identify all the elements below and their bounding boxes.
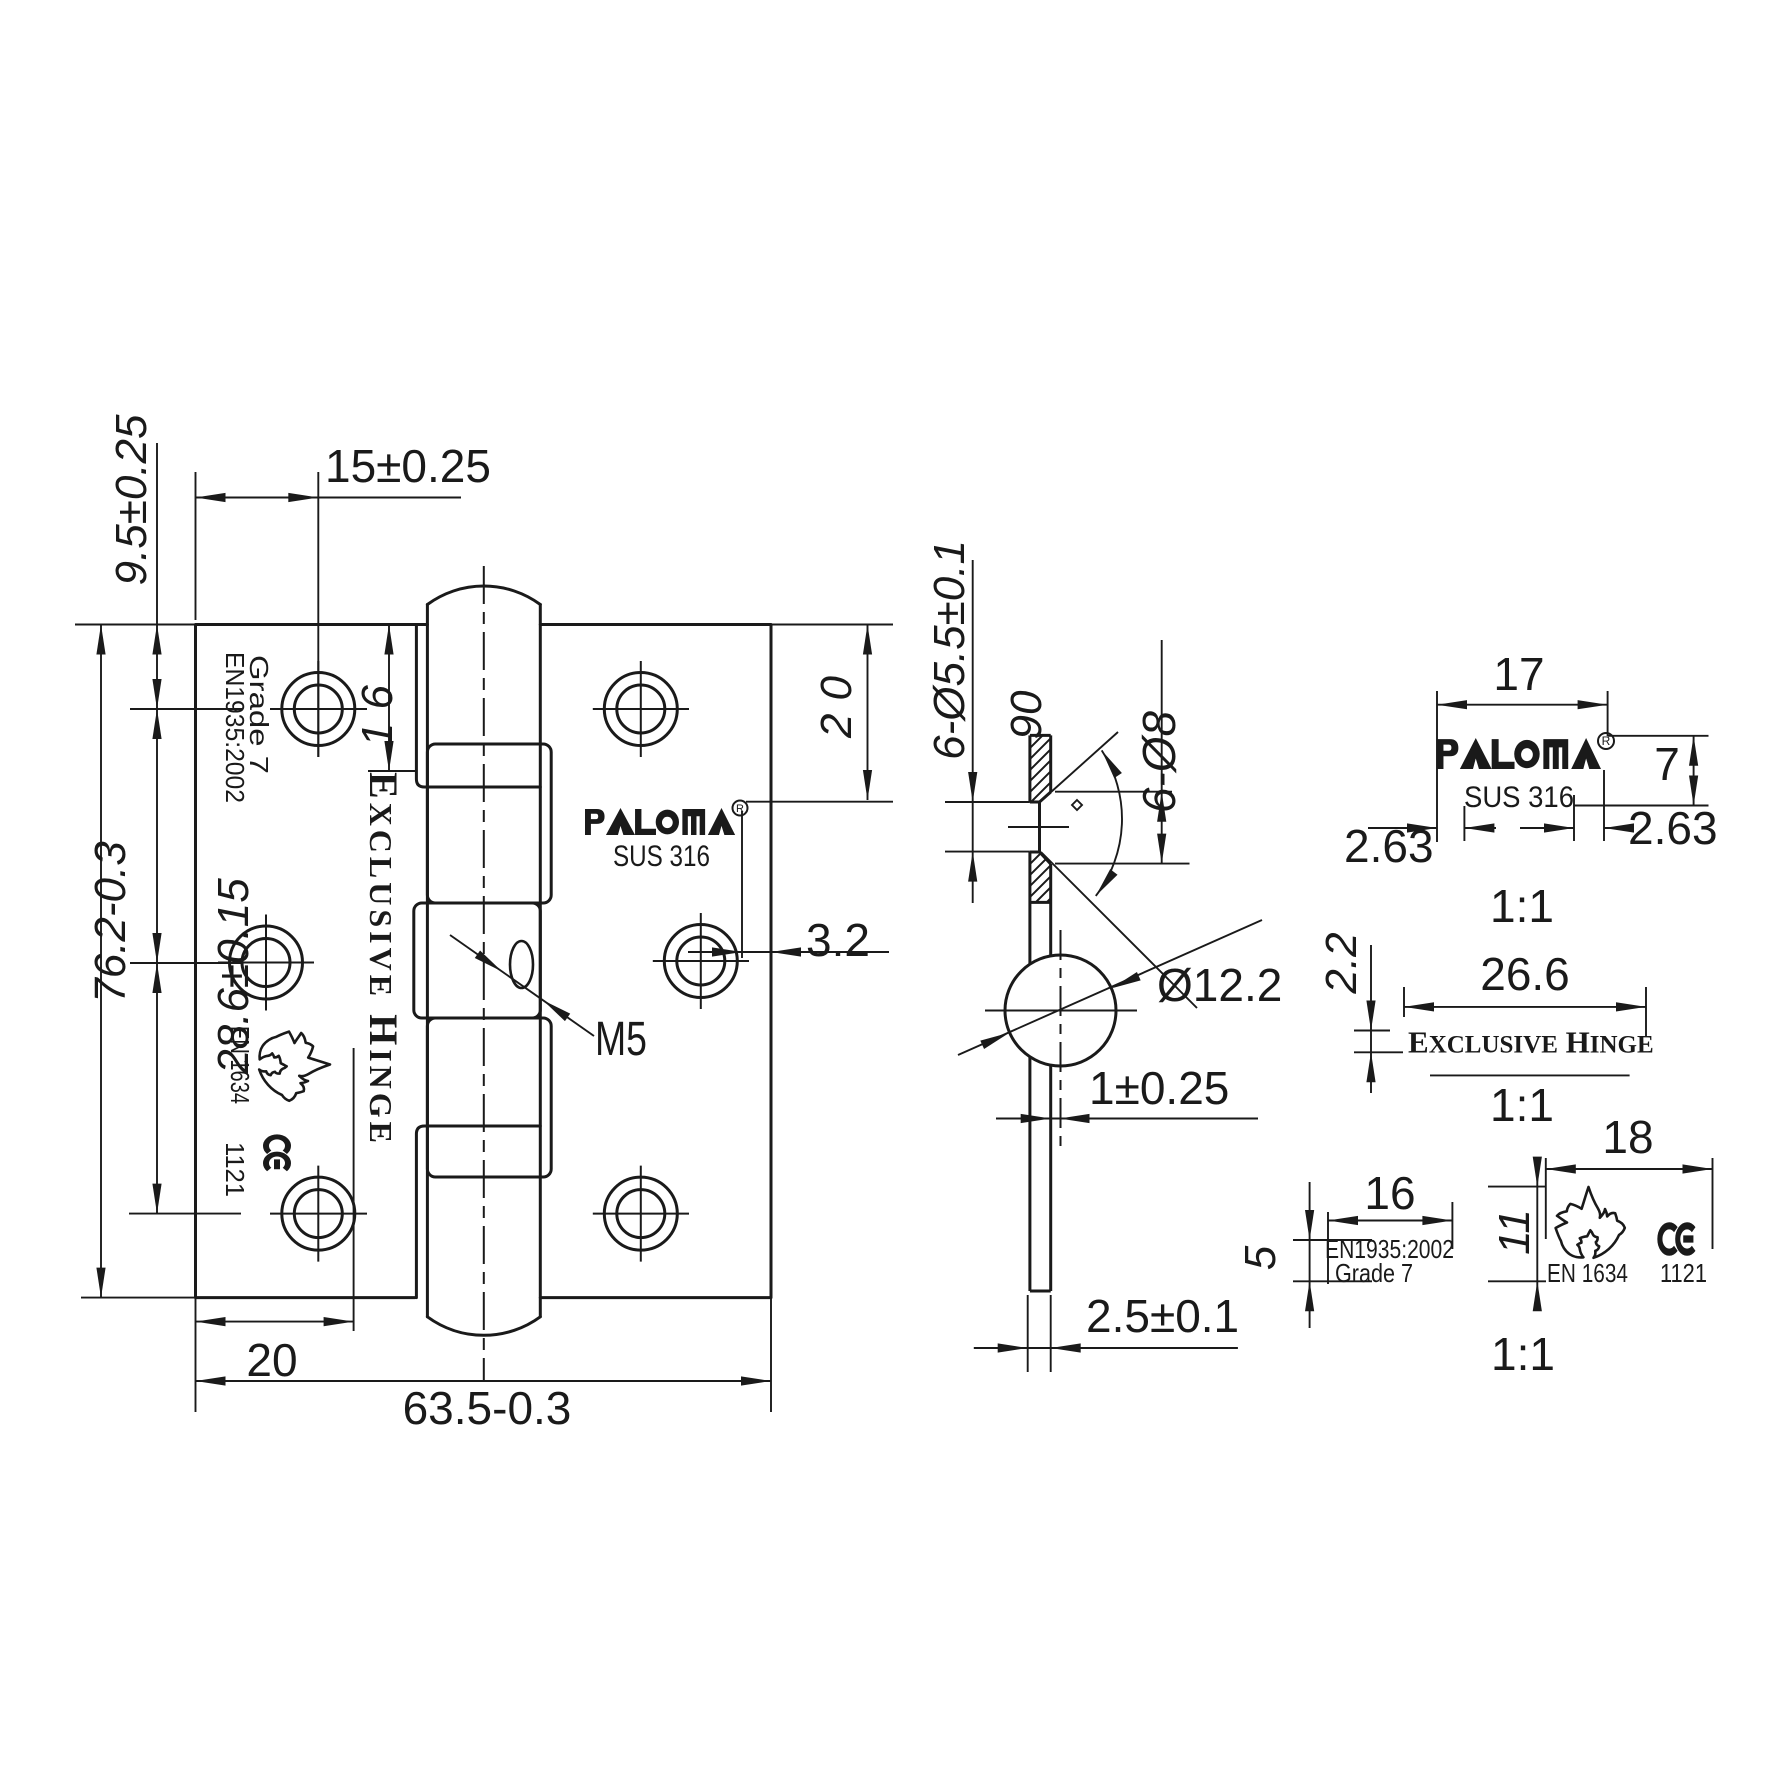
svg-text:1:1: 1:1 [1491,1328,1555,1380]
svg-text:20: 20 [246,1334,297,1386]
svg-text:1121: 1121 [220,1142,250,1197]
svg-text:EXCLUSIVE HINGE: EXCLUSIVE HINGE [361,772,406,1147]
svg-text:7: 7 [1654,738,1680,790]
svg-text:16: 16 [1364,1167,1415,1219]
svg-text:26.6: 26.6 [1480,948,1570,1000]
svg-text:3.2: 3.2 [806,914,870,966]
svg-text:11: 11 [1490,1209,1539,1255]
svg-text:Grade 7: Grade 7 [1335,1258,1413,1288]
svg-text:5: 5 [1236,1245,1285,1270]
svg-text:1:1: 1:1 [1490,880,1554,932]
svg-text:M5: M5 [595,1013,647,1066]
svg-text:15±0.25: 15±0.25 [325,440,491,492]
svg-text:2.63: 2.63 [1344,820,1434,872]
svg-text:EN 1634: EN 1634 [1547,1258,1628,1288]
svg-text:17: 17 [1493,648,1544,700]
svg-text:2.5±0.1: 2.5±0.1 [1086,1290,1239,1342]
svg-text:Grade 7: Grade 7 [244,655,274,774]
svg-text:R: R [1602,734,1611,748]
svg-text:76.2-0.3: 76.2-0.3 [86,841,135,1003]
svg-text:18: 18 [1602,1111,1653,1163]
svg-text:9.5±0.25: 9.5±0.25 [107,414,156,585]
svg-text:SUS 316: SUS 316 [1464,781,1574,814]
svg-text:90: 90 [1002,690,1051,739]
svg-text:1±0.25: 1±0.25 [1089,1062,1229,1114]
svg-text:2.2: 2.2 [1317,932,1366,994]
svg-text:1:1: 1:1 [1490,1079,1554,1131]
svg-text:6-Ø8: 6-Ø8 [1133,710,1185,813]
svg-text:Ø12.2: Ø12.2 [1157,959,1282,1011]
svg-text:SUS 316: SUS 316 [613,840,710,873]
svg-text:6-Ø5.5±0.1: 6-Ø5.5±0.1 [925,540,974,760]
svg-text:EN 1634: EN 1634 [225,1026,255,1104]
svg-text:63.5-0.3: 63.5-0.3 [403,1382,572,1434]
svg-text:2.63: 2.63 [1628,802,1718,854]
svg-text:1121: 1121 [1660,1258,1707,1288]
svg-text:R: R [736,803,744,815]
